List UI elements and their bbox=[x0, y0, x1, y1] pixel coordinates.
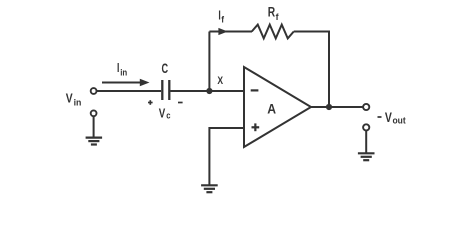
svg-text:V: V bbox=[159, 106, 166, 121]
svg-text:A: A bbox=[267, 102, 276, 117]
svg-text:C: C bbox=[162, 61, 169, 76]
svg-text:I: I bbox=[117, 61, 119, 75]
svg-text:V: V bbox=[66, 90, 73, 105]
svg-text:in: in bbox=[120, 68, 127, 79]
svg-text:R: R bbox=[268, 4, 276, 19]
svg-text:out: out bbox=[393, 115, 407, 126]
svg-text:f: f bbox=[221, 15, 225, 26]
svg-text:c: c bbox=[166, 110, 170, 121]
svg-text:X: X bbox=[217, 75, 223, 87]
svg-text:f: f bbox=[276, 12, 280, 23]
svg-text:in: in bbox=[74, 98, 82, 109]
svg-text:V: V bbox=[385, 110, 392, 125]
